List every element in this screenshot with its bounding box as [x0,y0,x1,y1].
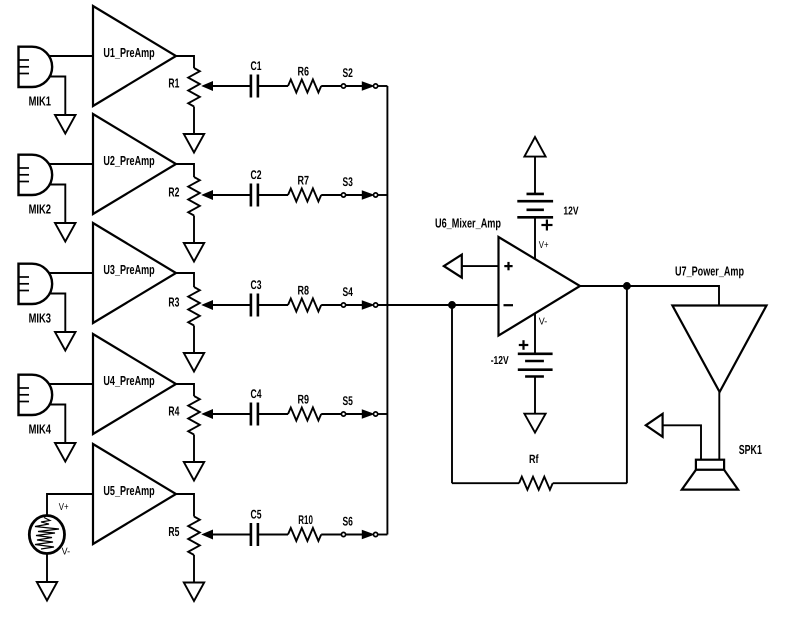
svg-text:V+: V+ [59,502,69,513]
wire [176,494,194,517]
switch S6 [341,515,377,539]
wire [580,286,719,306]
resistor R7 [288,174,321,202]
capacitor C2 [251,168,262,207]
svg-text:U3_PreAmp: U3_PreAmp [103,262,154,277]
svg-text:U7_Power_Amp: U7_Power_Amp [675,264,744,279]
svg-text:V-: V- [62,547,71,558]
svg-text:C3: C3 [251,278,262,292]
wire [258,534,288,536]
ground [55,332,76,351]
svg-text:SPK1: SPK1 [739,442,762,457]
ground [184,134,204,153]
wire [258,304,288,306]
wire [321,194,341,196]
speaker SPK1 [682,442,762,490]
svg-text:U1_PreAmp: U1_PreAmp [103,45,154,60]
resistor R9 [288,393,321,421]
capacitor C4 [251,387,262,426]
wire [321,413,341,415]
wire [258,194,288,196]
wire [378,534,388,536]
wire [193,107,195,135]
wire [193,326,195,354]
power rail arrow up [524,137,545,157]
switch S4 [341,285,377,309]
wire [321,534,341,536]
input port arrow [444,255,462,278]
svg-text:Rf: Rf [529,452,539,466]
svg-text:R5: R5 [168,524,179,539]
node summing junction [449,302,455,308]
wire [48,163,93,165]
svg-text:C5: C5 [251,508,262,522]
svg-text:MIK4: MIK4 [29,422,52,437]
microphone MIK2 [19,155,53,217]
wire [321,304,341,306]
svg-text:V-: V- [539,316,548,327]
svg-text:R1: R1 [168,76,179,91]
wire [193,216,195,244]
wire [378,413,388,415]
svg-text:S2: S2 [343,66,353,80]
resistor R6 [288,65,321,93]
wire [46,554,48,583]
svg-text:MIK2: MIK2 [29,202,51,217]
wire [49,77,65,116]
potentiometer R3 [168,287,250,326]
wire [49,405,65,444]
battery 12V [517,194,578,231]
op-amp U1_PreAmp [93,6,176,106]
wire [48,272,93,274]
resistor R8 [288,284,321,312]
wire [378,194,388,196]
wire [48,55,93,57]
svg-text:12V: 12V [563,205,578,217]
svg-text:R6: R6 [298,65,310,79]
wire [193,435,195,463]
wire [378,304,499,306]
ground [55,223,76,242]
svg-text:S5: S5 [343,394,353,408]
node output [624,283,630,289]
svg-text:MIK3: MIK3 [29,311,51,326]
svg-text:V+: V+ [539,240,549,251]
svg-text:S6: S6 [343,515,353,529]
ground [184,462,204,481]
op-amp U6_Mixer_Amp [435,216,580,336]
svg-text:R4: R4 [168,404,180,419]
wire [193,555,195,583]
wire [258,413,288,415]
svg-text:U5_PreAmp: U5_PreAmp [103,483,154,498]
op-amp U2_PreAmp [93,114,176,214]
svg-text:U4_PreAmp: U4_PreAmp [103,373,154,388]
resistor R10 [288,513,321,541]
wire bus [386,86,388,535]
op-amp U4_PreAmp [93,334,176,434]
wire [462,265,499,267]
wire [534,377,536,414]
svg-text:MIK1: MIK1 [29,94,51,109]
source V1 [29,502,70,558]
ground [184,243,204,262]
potentiometer R5 [168,517,250,556]
amplifier U7_Power_Amp [672,264,766,392]
svg-text:C1: C1 [251,59,262,73]
output port arrow [646,414,663,437]
wire [321,85,341,87]
wire [534,313,536,354]
svg-text:S4: S4 [343,285,353,299]
svg-text:S3: S3 [343,175,353,189]
op-amp U5_PreAmp [93,444,176,544]
wire [534,157,536,194]
wire [176,56,194,68]
svg-text:R2: R2 [168,185,179,200]
svg-text:R10: R10 [298,513,313,527]
capacitor C3 [251,278,262,317]
potentiometer R2 [168,177,250,216]
wire [258,85,288,87]
svg-text:R3: R3 [168,295,179,310]
wire [663,425,701,459]
wire [378,85,388,87]
wire [534,217,536,259]
wire [176,384,194,396]
wire [452,482,519,484]
potentiometer R1 [168,68,250,107]
capacitor C1 [251,59,262,98]
resistor Rf [519,452,553,490]
capacitor C5 [251,508,262,547]
ground [55,443,76,462]
microphone MIK3 [19,264,53,326]
potentiometer R4 [168,396,250,435]
svg-text:C2: C2 [251,168,262,182]
microphone MIK1 [19,47,53,109]
wire [48,383,93,385]
ground [55,115,76,134]
wire [47,494,93,516]
wire [718,392,720,460]
op-amp U3_PreAmp [93,223,176,323]
ground [184,353,204,372]
svg-text:R7: R7 [298,174,310,188]
wire [176,164,194,177]
wire [176,273,194,287]
wire [451,305,453,483]
wire [553,482,627,484]
switch S2 [341,66,377,90]
ground [184,583,204,602]
svg-text:U2_PreAmp: U2_PreAmp [103,153,154,168]
microphone MIK4 [19,375,53,437]
svg-text:U6_Mixer_Amp: U6_Mixer_Amp [435,216,501,231]
switch S5 [341,394,377,418]
power rail arrow down [524,414,545,433]
switch S3 [341,175,377,199]
wire [626,286,628,483]
ground [37,582,57,601]
svg-text:-12V: -12V [491,355,509,367]
svg-text:R8: R8 [298,284,310,298]
wire [49,294,65,333]
battery -12V [491,340,553,376]
svg-text:C4: C4 [251,387,262,401]
svg-text:R9: R9 [298,393,310,407]
wire [49,185,65,224]
